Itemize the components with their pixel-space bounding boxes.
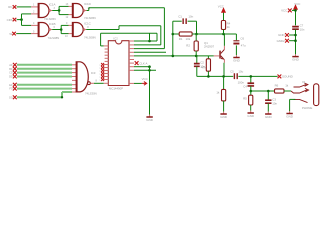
net flag input B bbox=[13, 67, 17, 71]
wire IC1B out to junction bbox=[52, 29, 61, 31]
ground GND under C6 bbox=[236, 55, 238, 57]
pin IC1D.11 output bbox=[83, 9, 85, 11]
wire R2 top stem bbox=[195, 34, 197, 41]
net flag W bbox=[12, 32, 16, 36]
wire IC1A out to junction bbox=[52, 10, 59, 12]
resistor R4 bbox=[221, 21, 225, 30]
capacitor C1 bbox=[183, 18, 186, 24]
net flag GND2 bbox=[285, 39, 289, 43]
ground GND under IC2 bbox=[149, 115, 151, 117]
svg-text:GND: GND bbox=[233, 59, 241, 63]
wire audio rail right bbox=[238, 75, 277, 77]
net flag input G bbox=[13, 95, 17, 99]
svg-text:GND2: GND2 bbox=[277, 39, 285, 43]
svg-text:IC3: IC3 bbox=[91, 71, 96, 75]
pin IC1B.6 output bbox=[49, 28, 51, 30]
pin U2 top-left oscillator bbox=[104, 45, 109, 47]
junction row9 gnd net bbox=[148, 69, 151, 72]
supply VCC above R4 bbox=[222, 8, 226, 12]
and-gate IC1C bbox=[72, 23, 83, 37]
junction R1C1 right node bbox=[195, 33, 198, 36]
svg-text:R2: R2 bbox=[186, 44, 190, 48]
pin U2 right row7 CLK A bbox=[129, 62, 134, 64]
svg-text:47k: 47k bbox=[201, 65, 206, 69]
wire R2 bottom stem bbox=[195, 51, 197, 56]
wire W to IC1B pin5 bbox=[16, 33, 31, 35]
wire oscillator loop over IC bbox=[101, 45, 104, 47]
junction top node at R4/collector bbox=[222, 33, 225, 36]
wire VCC stem bbox=[295, 10, 297, 26]
net flag input D bbox=[13, 75, 17, 79]
wire CPA branch vertical bbox=[21, 14, 23, 26]
wire C3 to ground bbox=[267, 103, 269, 111]
wire row8 to gnd net bbox=[134, 66, 150, 68]
and-gate IC1D bbox=[72, 4, 83, 18]
and-gate IC1A bbox=[38, 4, 49, 18]
wire osc box edge bbox=[149, 33, 151, 41]
wire R6 to jack bbox=[284, 90, 291, 92]
svg-text:VCC: VCC bbox=[281, 9, 287, 13]
svg-text:74LS08N: 74LS08N bbox=[44, 17, 56, 21]
ground GND under R5 bbox=[250, 111, 252, 113]
IC U2 MC14490 body bbox=[108, 41, 129, 86]
junction base rail at R2/C2 node bbox=[195, 55, 198, 58]
svg-text:IC1A: IC1A bbox=[49, 3, 56, 7]
junction R1C1 left node bbox=[172, 33, 175, 36]
wire row2 from IC1C bbox=[134, 44, 161, 46]
capacitor C3 to ground bbox=[267, 91, 269, 100]
svg-text:G0: G0 bbox=[9, 95, 13, 99]
wire VCC flag to column bbox=[292, 9, 296, 11]
junction CPA branch bbox=[20, 18, 23, 21]
capacitor C4 bbox=[248, 83, 255, 86]
svg-text:IC1C: IC1C bbox=[84, 22, 92, 26]
pin U2 right row4 bbox=[129, 51, 134, 53]
svg-text:GND: GND bbox=[278, 33, 284, 37]
svg-text:74LS08N: 74LS08N bbox=[84, 35, 96, 39]
wire C4 to output rail bbox=[250, 86, 252, 91]
junction VCC column bbox=[294, 9, 297, 12]
svg-text:IC2: IC2 bbox=[114, 36, 119, 40]
net flag RC bbox=[13, 5, 17, 9]
ground GND under C3 bbox=[267, 112, 269, 114]
pin IC1D.12 bbox=[69, 14, 73, 16]
svg-text:C5: C5 bbox=[230, 70, 234, 74]
svg-text:X1: X1 bbox=[302, 80, 306, 84]
pin IC1C.10 bbox=[69, 33, 73, 35]
svg-text:CLK A: CLK A bbox=[139, 61, 147, 65]
pin IC3 input 8 bbox=[72, 91, 76, 93]
pin IC1A.1 bbox=[31, 6, 38, 8]
svg-text:B0: B0 bbox=[9, 67, 13, 71]
net flag VCC bbox=[288, 9, 292, 13]
svg-text:1k: 1k bbox=[227, 25, 231, 29]
svg-text:IC1D: IC1D bbox=[84, 2, 92, 6]
svg-text:GND: GND bbox=[247, 114, 255, 118]
resistor R7 emitter load bbox=[223, 76, 225, 89]
wire C7 to ground column bbox=[295, 29, 297, 54]
pin U2 right row5 base rail bbox=[129, 55, 134, 57]
wire row9 across bbox=[134, 69, 156, 71]
junction GND column a bbox=[294, 34, 297, 37]
svg-text:VCC: VCC bbox=[218, 5, 224, 9]
wire R4 to top node bbox=[223, 30, 225, 35]
wire R3 bottom stem bbox=[207, 71, 209, 76]
svg-text:C0: C0 bbox=[9, 71, 13, 75]
svg-text:74LS08N: 74LS08N bbox=[48, 36, 60, 40]
net flag GND bbox=[285, 33, 289, 37]
svg-text:C1: C1 bbox=[178, 15, 182, 19]
wire input B to IC3 bbox=[17, 68, 72, 70]
pin IC1B.4 bbox=[31, 24, 38, 26]
pin U2 left bare 4 bbox=[105, 57, 109, 59]
junction audio rail at R3 bbox=[207, 75, 210, 78]
junction IC1B output node bbox=[60, 28, 63, 31]
svg-text:GND: GND bbox=[292, 58, 300, 62]
svg-text:47u: 47u bbox=[241, 44, 246, 48]
junction audio rail at emitter bbox=[222, 75, 225, 78]
connector X1 phone jack bbox=[314, 84, 319, 106]
svg-text:VCC: VCC bbox=[294, 2, 300, 6]
net flag SOUND bbox=[278, 75, 282, 79]
svg-text:A0: A0 bbox=[9, 63, 13, 67]
wire row1 to loop bbox=[134, 40, 157, 42]
svg-text:74LS08N: 74LS08N bbox=[84, 16, 96, 20]
wire node to IC1C pin10 bbox=[61, 33, 68, 35]
svg-text:1k: 1k bbox=[216, 90, 220, 94]
wire base rail bbox=[134, 55, 214, 57]
pin U2 left 10 with nc X bbox=[104, 76, 109, 78]
wire IC3 out to U2 bbox=[94, 82, 104, 84]
pin IC1A.3 output bbox=[49, 9, 51, 11]
wire top node rail bbox=[197, 33, 237, 35]
wire node vertical to IC1D inputs bbox=[58, 6, 60, 14]
resistor R3 bbox=[206, 59, 210, 71]
ground GND under X1 bbox=[289, 111, 291, 113]
pin U2 left 6 with nc X bbox=[104, 64, 109, 66]
wire row4 stub bbox=[134, 51, 166, 53]
capacitor C7 decoupling bbox=[292, 27, 299, 30]
nand-gate IC3 74LS30 bbox=[76, 62, 88, 92]
wire input G jog bbox=[17, 96, 62, 98]
pin U2 right row9 bbox=[129, 69, 134, 71]
pin U2 left 11 with nc X bbox=[104, 79, 109, 81]
ground GND under R7 bbox=[223, 112, 225, 114]
wire R3 top stem bbox=[207, 56, 209, 59]
svg-text:C6: C6 bbox=[240, 36, 244, 40]
wire top node to C6 bbox=[235, 34, 237, 40]
pin U2 left bare 1 bbox=[105, 48, 109, 50]
pin U2 left 7 with nc X bbox=[104, 67, 109, 69]
wire C1 loop left bbox=[172, 21, 174, 34]
pin U2 right row3 bbox=[129, 48, 134, 50]
wire row3 from IC1D bbox=[134, 48, 164, 50]
wire branch to IC1B pin4 bbox=[22, 24, 32, 26]
wire Q1 collector up bbox=[223, 46, 225, 50]
pin IC3 input 1 bbox=[72, 64, 76, 66]
pin IC3.8 output bbox=[90, 82, 94, 84]
wire R1C1 left node vertical bbox=[172, 34, 174, 56]
wire node to IC1D pin12 bbox=[59, 14, 68, 16]
wire branch to IC1A pin2 bbox=[22, 13, 32, 15]
wire C1 loop right bbox=[188, 20, 197, 22]
svg-text:MC14490P: MC14490P bbox=[109, 86, 123, 90]
resistor R5 to ground bbox=[250, 91, 252, 95]
capacitor C5 coupling bbox=[234, 73, 237, 79]
svg-text:C4: C4 bbox=[243, 84, 247, 88]
pin U2 right row2 bbox=[129, 44, 134, 46]
junction output rail at C4 bbox=[250, 90, 253, 93]
wire GND flag to column bbox=[289, 34, 295, 36]
wire input F to IC3 bbox=[17, 88, 72, 90]
wire GND2 flag to column bbox=[289, 40, 295, 42]
pin U2 left bare 3 bbox=[105, 54, 109, 56]
pin U2 right row8 bbox=[129, 66, 134, 68]
svg-text:GND: GND bbox=[146, 118, 154, 122]
resistor R2 bbox=[194, 41, 198, 51]
junction GND column b bbox=[294, 39, 297, 42]
wire C2 to audio rail bbox=[196, 67, 198, 77]
supply VCC right column bbox=[294, 5, 298, 9]
pin IC1C.9 bbox=[69, 24, 73, 26]
pin U2 left bare 5 bbox=[105, 60, 109, 62]
wire C2 stem from base rail bbox=[196, 56, 198, 63]
wire input C to IC3 bbox=[17, 72, 72, 74]
pin IC3 input 4 bbox=[72, 76, 76, 78]
pin IC1C.8 output bbox=[83, 28, 85, 30]
power pin U2 VCC arrow bbox=[129, 82, 134, 84]
svg-text:D0: D0 bbox=[9, 75, 13, 79]
svg-text:PHONE: PHONE bbox=[302, 106, 312, 110]
wire C6 to ground bbox=[235, 45, 237, 55]
pin U2 left 8 with nc X bbox=[104, 70, 109, 72]
pin U2 right row6 bbox=[129, 59, 134, 61]
svg-text:IC1B: IC1B bbox=[49, 22, 56, 26]
transistor Q1 2N2907 bbox=[219, 51, 221, 59]
wire Q1 emitter down bbox=[223, 60, 225, 63]
resistor R6 series bbox=[275, 89, 285, 93]
svg-text:10n: 10n bbox=[300, 28, 305, 32]
net flag CPA bbox=[13, 18, 17, 22]
svg-text:W: W bbox=[9, 32, 12, 36]
wire IC1D out jog bbox=[87, 10, 89, 12]
svg-text:10u: 10u bbox=[238, 70, 243, 74]
svg-text:R5: R5 bbox=[243, 96, 247, 100]
ground GND right column bbox=[295, 54, 297, 56]
wire IC1D net drop to IC2 bbox=[163, 8, 165, 49]
svg-text:R1: R1 bbox=[179, 37, 183, 41]
wire input E to IC3 bbox=[17, 84, 72, 86]
wire output rail bbox=[251, 90, 275, 92]
svg-text:E0: E0 bbox=[9, 83, 13, 87]
wire C4 top stem bbox=[250, 76, 252, 82]
net flag CLK A bbox=[135, 61, 139, 65]
svg-text:R6: R6 bbox=[275, 84, 279, 88]
wire CPA to branch bbox=[17, 19, 22, 21]
pin IC1B.5 bbox=[31, 33, 38, 35]
svg-text:2N2907: 2N2907 bbox=[204, 45, 215, 49]
junction input G corner bbox=[61, 96, 63, 98]
junction IC1A output node bbox=[58, 9, 61, 12]
svg-text:10n: 10n bbox=[272, 101, 277, 105]
svg-text:10k: 10k bbox=[186, 37, 191, 41]
net flag input E bbox=[13, 83, 17, 87]
pin IC3 input 2 bbox=[72, 68, 76, 70]
pin IC1D.13 bbox=[69, 5, 73, 7]
wire R5 to ground bbox=[250, 105, 252, 111]
svg-text:10n: 10n bbox=[188, 15, 193, 19]
svg-text:GND: GND bbox=[286, 115, 294, 119]
junction output rail at C3 bbox=[267, 90, 270, 93]
capacitor C2 bbox=[194, 64, 200, 67]
wire RC to IC1A pin1 bbox=[17, 6, 31, 8]
pin U2 right row1 bbox=[129, 40, 134, 42]
pin IC3 input 6 bbox=[72, 84, 76, 86]
wire input D to IC3 bbox=[17, 76, 72, 78]
pin U2 left 9 with nc X bbox=[104, 73, 109, 75]
svg-text:SOUND: SOUND bbox=[282, 75, 294, 79]
pin IC3 input 3 bbox=[72, 72, 76, 74]
svg-text:GND: GND bbox=[220, 115, 228, 119]
wire R7 to ground bbox=[223, 101, 225, 112]
junction row8 gnd net bbox=[148, 65, 151, 68]
wire node to IC1D pin13 bbox=[59, 5, 68, 7]
wire VCC to R4 bbox=[223, 13, 225, 21]
svg-text:GND: GND bbox=[265, 115, 273, 119]
net flag input F bbox=[13, 87, 17, 91]
net flag input A bbox=[13, 63, 17, 67]
wire IC1C out jog bbox=[86, 29, 119, 31]
wire node to IC1C pin9 bbox=[61, 24, 68, 26]
svg-text:VCC: VCC bbox=[142, 77, 148, 81]
wire R1 to right node bbox=[192, 33, 196, 35]
and-gate IC1B bbox=[38, 23, 49, 37]
wire jack sleeve to ground bbox=[290, 98, 296, 100]
wire input A to IC3 bbox=[17, 64, 72, 66]
wire node vertical to IC1C inputs bbox=[60, 25, 62, 33]
pin IC3 input 7 bbox=[72, 88, 76, 90]
wire audio rail left bbox=[197, 75, 233, 77]
resistor R1 bbox=[179, 32, 192, 36]
junction audio rail at C4 bbox=[250, 75, 253, 78]
capacitor C6 polarized bbox=[233, 40, 239, 42]
pin Q1 base bbox=[214, 55, 220, 57]
svg-text:CPA: CPA bbox=[7, 18, 13, 22]
pin U2 left row for IC3 input bbox=[104, 82, 109, 84]
pin IC3 input 5 nc bbox=[72, 79, 78, 81]
wire rail into R1 bbox=[173, 33, 179, 35]
wire IC1C net drop to IC2 bbox=[160, 26, 162, 45]
svg-text:74LS30N: 74LS30N bbox=[85, 92, 97, 96]
pin U2 left bare 2 bbox=[105, 51, 109, 53]
wire gnd net vertical bbox=[149, 67, 151, 115]
junction base rail at C1R1 node bbox=[172, 55, 175, 58]
net flag input C bbox=[13, 71, 17, 75]
pin IC1A.2 bbox=[31, 13, 38, 15]
